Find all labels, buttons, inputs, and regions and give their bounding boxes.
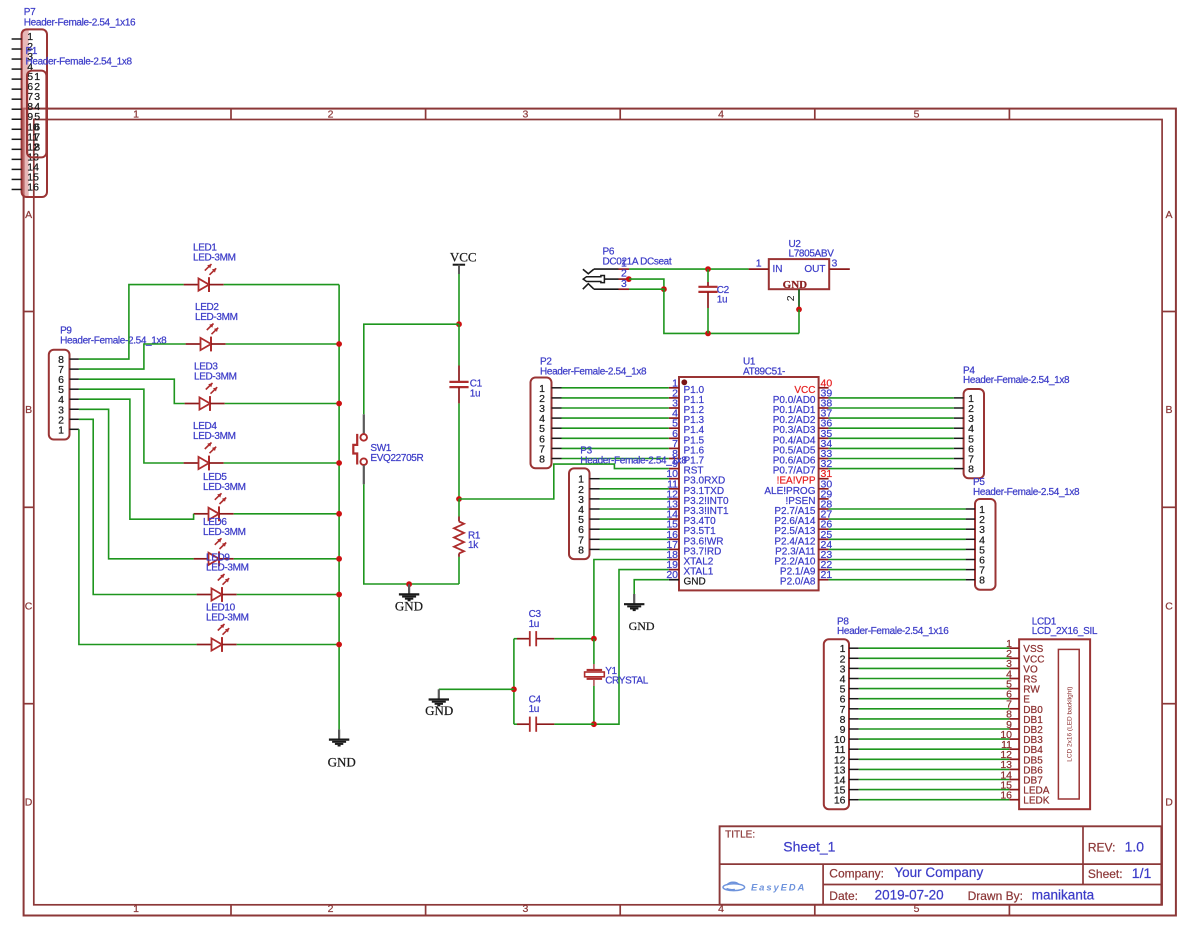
- wire U1 GND pin down: [634, 580, 669, 594]
- connector P4 Header-Female-2.54_1x8: [954, 366, 1070, 479]
- wire U1 XTAL2 down to crystal: [594, 560, 669, 639]
- wire R1 top: [458, 499, 460, 517]
- connector P9 Header-Female-2.54_1x8: [49, 325, 167, 439]
- frame column labels top: [133, 108, 920, 120]
- wire P6.3 to ground run: [629, 289, 799, 333]
- svg-text:Your Company: Your Company: [894, 865, 983, 880]
- svg-text:8: 8: [578, 544, 584, 556]
- svg-text:manikanta: manikanta: [1032, 888, 1095, 903]
- wire C3/C4 left vertical: [514, 638, 517, 640]
- wire SW1 bottom to ground rail: [364, 484, 459, 584]
- svg-text:2: 2: [785, 295, 797, 301]
- wire P6.1 to U2 IN: [629, 268, 749, 270]
- svg-text:1u: 1u: [529, 704, 539, 715]
- svg-text:LCD 2x16 (LED backlight): LCD 2x16 (LED backlight): [1067, 687, 1074, 762]
- svg-text:8: 8: [979, 575, 985, 587]
- VCC power symbol: [450, 249, 477, 274]
- frame row ticks right: [1162, 312, 1176, 704]
- capacitor C3 1u: [517, 609, 554, 646]
- LED2 LED-3MM: [186, 302, 238, 351]
- svg-text:Header-Female-2.54_1x8: Header-Female-2.54_1x8: [540, 366, 647, 377]
- svg-text:A: A: [25, 209, 32, 221]
- wire P9.8 to LED1: [79, 285, 184, 360]
- svg-text:LED-3MM: LED-3MM: [193, 253, 236, 264]
- connector P3 Header-Female-2.54_1x8: [569, 445, 687, 559]
- wire LED9 cathode to bus: [237, 594, 339, 596]
- svg-text:1: 1: [756, 258, 762, 270]
- LED9 LED-3MM: [197, 553, 249, 602]
- voltage regulator U2 L7805ABV: [749, 239, 850, 309]
- wire LED3 cathode to bus: [225, 403, 339, 405]
- wires P3 to U1 P3.0-P3.7: [600, 479, 669, 550]
- svg-text:3: 3: [832, 258, 838, 270]
- svg-text:LCD_2X16_SIL: LCD_2X16_SIL: [1032, 626, 1098, 637]
- svg-text:Company:: Company:: [829, 867, 884, 881]
- svg-text:EasyEDA: EasyEDA: [751, 883, 806, 894]
- ground symbol for crystal caps: [425, 689, 453, 718]
- wire U2 GND to ground run: [798, 309, 800, 333]
- svg-text:P1: P1: [26, 46, 38, 57]
- svg-text:CRYSTAL: CRYSTAL: [605, 676, 649, 687]
- svg-text:GND: GND: [425, 703, 453, 718]
- svg-text:1: 1: [133, 108, 139, 120]
- svg-text:GND: GND: [629, 619, 655, 633]
- svg-text:B: B: [25, 404, 32, 416]
- svg-text:8: 8: [968, 464, 974, 476]
- svg-text:1.0: 1.0: [1125, 838, 1145, 854]
- svg-text:Header-Female-2.54_1x16: Header-Female-2.54_1x16: [24, 17, 136, 28]
- LED6 LED-3MM: [194, 517, 246, 566]
- svg-text:OUT: OUT: [804, 264, 825, 275]
- resistor R1 1k: [454, 499, 481, 557]
- wire LED ground bus: [338, 285, 340, 730]
- wire C3 right to crystal top: [554, 638, 594, 640]
- wire LED10 cathode to bus: [237, 644, 339, 646]
- wires U1 P2 port to P5: [829, 509, 966, 580]
- svg-text:Date:: Date:: [829, 889, 858, 903]
- capacitor C2 1u: [698, 282, 729, 308]
- LED4 LED-3MM: [184, 421, 236, 470]
- ground symbol for LED bus: [328, 729, 356, 769]
- wire P9.1 to LED10: [79, 429, 197, 644]
- svg-text:1k: 1k: [468, 540, 479, 551]
- svg-text:3: 3: [522, 903, 528, 915]
- wire P9.5 to LED4: [79, 389, 184, 463]
- wire LED4 cathode to bus: [224, 462, 339, 464]
- svg-text:AT89C51-: AT89C51-: [743, 366, 785, 377]
- svg-text:LED-3MM: LED-3MM: [206, 613, 249, 624]
- svg-text:LED-3MM: LED-3MM: [203, 527, 246, 538]
- LED10 LED-3MM: [197, 603, 249, 652]
- svg-text:A: A: [1165, 209, 1172, 221]
- svg-text:Header-Female-2.54_1x8: Header-Female-2.54_1x8: [973, 487, 1080, 498]
- wire U1 RST to C1/R1 junction: [459, 464, 669, 499]
- svg-text:D: D: [25, 797, 33, 809]
- svg-text:GND: GND: [684, 577, 706, 588]
- junction C2 top: [705, 266, 711, 272]
- svg-text:Header-Female-2.54_1x8: Header-Female-2.54_1x8: [26, 57, 133, 68]
- switch SW1 EVQ22705R: [353, 414, 423, 484]
- svg-text:LED-3MM: LED-3MM: [194, 372, 237, 383]
- wire LED1 cathode to bus: [224, 284, 339, 286]
- LED1 LED-3MM: [184, 243, 236, 292]
- frame column ticks bottom: [231, 905, 1009, 916]
- svg-text:1u: 1u: [470, 388, 480, 399]
- svg-text:VCC: VCC: [450, 249, 477, 264]
- junction crystal bottom: [591, 721, 597, 727]
- svg-text:TITLE:: TITLE:: [725, 830, 755, 841]
- svg-text:C: C: [1165, 601, 1173, 613]
- svg-text:Header-Female-2.54_1x16: Header-Female-2.54_1x16: [837, 626, 949, 637]
- wire P9.6 to LED3: [79, 379, 185, 403]
- svg-text:8: 8: [34, 141, 40, 153]
- junction P6.2: [626, 276, 632, 282]
- connector P5 Header-Female-2.54_1x8: [966, 477, 1080, 590]
- wires P8 to LCD1: [859, 648, 1010, 800]
- ground symbol for U1 GND: [624, 594, 655, 633]
- svg-text:GND: GND: [395, 598, 423, 613]
- connector P8 Header-Female-2.54_1x16: [824, 616, 949, 809]
- EasyEDA logo: [723, 882, 806, 893]
- module LCD1 LCD_2X16_SIL: [1000, 616, 1098, 809]
- connector P1 Header-Female-2.54_1x8: [26, 46, 133, 157]
- svg-text:2: 2: [328, 108, 334, 120]
- connector P2 Header-Female-2.54_1x8: [531, 357, 648, 469]
- junction dots on LED bus: [336, 341, 342, 647]
- svg-text:16: 16: [834, 795, 846, 807]
- svg-text:8: 8: [539, 454, 545, 466]
- wire P9.3 to LED6: [79, 409, 194, 559]
- wire LED5 cathode to bus: [234, 513, 339, 515]
- svg-text:1: 1: [133, 903, 139, 915]
- svg-text:IN: IN: [773, 264, 783, 275]
- svg-text:LEDK: LEDK: [1023, 796, 1049, 807]
- svg-text:2: 2: [328, 903, 334, 915]
- svg-text:LED-3MM: LED-3MM: [206, 563, 249, 574]
- svg-text:Header-Female-2.54_1x8: Header-Female-2.54_1x8: [963, 375, 1070, 386]
- LED3 LED-3MM: [185, 362, 237, 411]
- junction C1/R1/RST: [456, 496, 462, 502]
- svg-text:LED-3MM: LED-3MM: [195, 312, 238, 323]
- junction crystal caps ground: [511, 686, 517, 692]
- capacitor C4 1u: [517, 694, 554, 732]
- crystal Y1 CRYSTAL: [585, 639, 649, 725]
- capacitor C1 1u: [449, 366, 482, 404]
- svg-text:4: 4: [718, 108, 724, 120]
- svg-text:Header-Female-2.54_1x8: Header-Female-2.54_1x8: [60, 336, 167, 347]
- svg-text:5: 5: [914, 108, 920, 120]
- svg-text:3: 3: [522, 108, 528, 120]
- junction ground rail: [406, 581, 412, 587]
- svg-text:LED-3MM: LED-3MM: [193, 431, 236, 442]
- svg-text:1: 1: [58, 424, 64, 436]
- wire LED2 cathode to bus: [226, 343, 339, 345]
- frame row ticks left: [24, 312, 34, 704]
- ground symbol below rail: [395, 584, 423, 613]
- junction P6.3: [661, 286, 667, 292]
- svg-text:P2.0/A8: P2.0/A8: [780, 577, 816, 588]
- svg-text:C: C: [25, 601, 33, 613]
- svg-text:REV:: REV:: [1088, 840, 1116, 854]
- svg-text:L7805ABV: L7805ABV: [789, 249, 835, 260]
- wire P9.2 to LED9: [79, 419, 197, 594]
- wire P9.4 to LED5: [79, 399, 194, 519]
- wire LED6 cathode to bus: [234, 558, 339, 560]
- wire C1 to RST junction: [458, 403, 460, 499]
- junction C2 bottom: [705, 331, 711, 337]
- frame column labels bottom: [133, 903, 920, 915]
- wire junction to C1: [458, 324, 460, 365]
- svg-text:1u: 1u: [717, 295, 727, 306]
- IC U1 AT89C51: [666, 357, 832, 591]
- connector P7 Header-Female-2.54_1x16: [12, 7, 136, 197]
- svg-text:GND: GND: [328, 755, 356, 770]
- svg-text:B: B: [1165, 404, 1172, 416]
- svg-text:EVQ22705R: EVQ22705R: [370, 453, 423, 464]
- wire P6.2 down: [629, 279, 664, 289]
- wire C2 top lead: [707, 269, 709, 282]
- svg-text:D: D: [1165, 797, 1173, 809]
- frame column ticks top: [231, 109, 1009, 120]
- svg-text:GND: GND: [783, 279, 808, 291]
- LED5 LED-3MM: [194, 472, 246, 521]
- svg-text:Drawn By:: Drawn By:: [968, 889, 1023, 903]
- svg-text:LED-3MM: LED-3MM: [203, 482, 246, 493]
- wire R1 bottom to ground rail: [458, 557, 460, 584]
- title block: [720, 826, 1162, 904]
- junction crystal top: [591, 636, 597, 642]
- svg-text:2019-07-20: 2019-07-20: [875, 888, 944, 903]
- svg-text:Sheet:: Sheet:: [1088, 867, 1123, 881]
- junction VCC/C1/SW1: [456, 321, 462, 327]
- wire C2 bottom lead: [707, 308, 709, 333]
- wire U1 XTAL1 down: [594, 570, 669, 725]
- svg-text:Sheet_1: Sheet_1: [783, 838, 835, 854]
- wire P9.7 to LED2: [79, 344, 186, 369]
- wire VCC down to junction: [458, 274, 460, 324]
- wires U1 P0 port to P4: [829, 398, 954, 469]
- wire junction to SW1 top: [364, 324, 459, 414]
- frame row labels left: [25, 209, 33, 809]
- connector P6 DC021A DCseat: [583, 247, 672, 291]
- svg-text:1/1: 1/1: [1132, 865, 1152, 881]
- wire C4 right to crystal bottom: [554, 723, 594, 725]
- wire ground to cap junction: [439, 688, 514, 690]
- svg-text:1u: 1u: [529, 619, 539, 630]
- wires P2 to U1 P1.0-P1.7: [562, 388, 669, 459]
- junction U2 GND pin: [796, 307, 802, 313]
- svg-text:DC021A DCseat: DC021A DCseat: [603, 256, 672, 267]
- svg-text:16: 16: [27, 181, 39, 193]
- frame row labels right: [1165, 209, 1173, 809]
